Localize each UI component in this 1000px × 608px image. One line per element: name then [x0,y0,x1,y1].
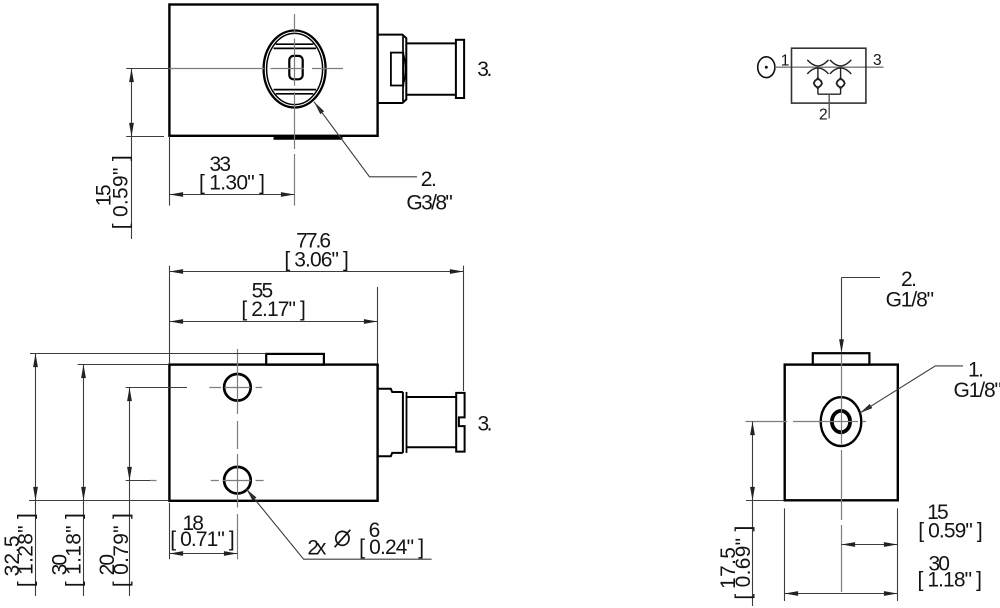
top view vertical centerline [294,14,296,206]
dimension 15 extension line top [126,68,169,70]
svg-text:3.: 3. [477,58,492,81]
fitting nut face lines (front view) [402,392,404,453]
side view horizontal centerline [746,421,867,423]
side view body outline [785,365,898,501]
svg-text:[ 1.30" ]: [ 1.30" ] [199,172,265,195]
svg-text:G1/8": G1/8" [954,379,1000,402]
fitting nut inner detail rect [391,53,403,86]
fitting end flange (top view) [456,40,464,98]
dimension 15 line [131,69,133,240]
dimension 30 line [83,365,85,597]
dimension 17.5 arrows [750,422,755,436]
dimension 33 line [170,194,295,196]
svg-text:[ 1.28" ]: [ 1.28" ] [14,513,37,587]
fitting cylinder (top view) [406,42,456,44]
dimension 77.6 extension left [169,266,171,364]
leader port 2 horizontal line [842,277,881,279]
port 2 lower chord lines [274,89,316,91]
dimension 55 line [170,321,378,323]
dimension 33 arrows [170,192,184,197]
dimension 17.5 extension bottom [746,500,784,502]
svg-text:2: 2 [819,106,828,123]
dimension 77.6 line [170,271,464,273]
side view vertical centerline [841,354,843,592]
port 2 tap line [828,94,830,118]
front view body outline [169,365,377,501]
leader port 1 arrow [858,404,872,415]
svg-text:[ 2.17" ]: [ 2.17" ] [241,298,306,321]
dimension 77.6 arrows [170,269,184,274]
leader 2x holes line [246,489,432,560]
dimension 18 extension left [169,503,171,559]
front view vertical centerline [237,349,239,559]
dimension 18 line [170,553,238,555]
fitting nut face line [402,36,404,101]
front view top boss [266,354,324,365]
left check valve [814,68,823,94]
fitting nut (front view) top profile [378,389,403,392]
dimension 15 line [842,544,898,546]
svg-text:[ 0.24" ]: [ 0.24" ] [359,536,424,559]
dimension 20 arrows [127,388,132,402]
svg-text:[ 3.06" ]: [ 3.06" ] [284,249,349,272]
top view boss edge strip below body [274,137,343,140]
leader port 1 line [860,366,964,413]
dimension 55 extension right [377,287,379,364]
top view body outline [169,5,377,136]
left venturi arcs [807,60,828,74]
right venturi arcs [830,60,851,74]
dimension 55 arrows [170,319,184,324]
svg-text:[ 1.18" ]: [ 1.18" ] [62,513,85,587]
mounting hole upper [224,374,251,401]
upper hole horizontal centerline [209,387,262,389]
dimension 15 extension line bottom [126,136,164,138]
dimension 20 extension top [126,387,187,389]
label diameter symbol [336,531,349,545]
extension line below body right [897,508,899,601]
dimension 15 arrows [842,542,856,547]
leader port 2 arrow [839,339,844,353]
dimension 32.5 extension top [30,353,266,355]
port 2 outer ellipse [264,31,326,108]
svg-text:G3/8": G3/8" [406,191,453,214]
fitting nut (front view) bottom profile [378,453,403,456]
svg-text:2x: 2x [307,536,327,559]
svg-text:2.: 2. [901,268,917,291]
svg-text:3: 3 [873,52,882,69]
fitting nut inner detail arc [403,54,405,84]
dimension 17.5 line [752,422,754,607]
dimension 32.5 arrows [33,354,38,368]
top view horizontal centerline [169,68,343,70]
schematic through line 1 to 3 [775,66,884,68]
leader to port 2 line [314,102,417,177]
svg-text:G1/8": G1/8" [886,289,935,312]
port 1 outer ellipse [821,397,862,446]
leader 2x holes arrow [244,487,256,501]
dimension 30 extension top [78,364,170,366]
svg-text:[ 0.59" ]: [ 0.59" ] [918,519,983,542]
svg-text:[ 0.59" ]: [ 0.59" ] [109,155,132,229]
dimension 30 line (side view) [785,593,898,595]
port 2 upper chord lines [276,43,314,45]
right check valve [836,68,845,94]
dimension 18 arrows [170,551,184,556]
port 2 center slot [289,56,302,79]
side view top boss [813,353,870,364]
dimension 32.5/30 extension bottom [29,500,169,502]
leader to port 2 (top view) arrow [312,100,324,114]
svg-text:3.: 3. [478,412,493,435]
fitting nut (top view) [378,35,407,103]
port 1 inner ring [832,411,850,432]
svg-text:1: 1 [781,52,790,69]
svg-text:2.: 2. [421,168,437,191]
svg-text:[ 0.79" ]: [ 0.79" ] [110,513,133,587]
dimension 32.5 line [35,354,37,597]
svg-text:[ 0.71" ]: [ 0.71" ] [170,528,235,551]
lower hole horizontal centerline [150,480,264,482]
schematic box [792,48,866,103]
leader port 2 vertical line [841,278,843,352]
dimension 15 arrows [129,69,134,83]
dimension 30 arrows (side view) [785,591,799,596]
fitting end flange with groove (front view) [456,393,464,452]
schematic port circle dot [765,66,768,69]
dimension 77.6 extension right [463,266,465,391]
mounting hole lower [224,467,251,494]
svg-text:[ 0.69" ]: [ 0.69" ] [732,526,755,600]
dimension 20 line [129,388,131,597]
schematic port circle with dot [758,57,775,78]
dimension 20 extension bottom [126,480,150,482]
svg-text:[ 1.18" ]: [ 1.18" ] [917,569,982,592]
check valve connector line [818,93,841,95]
dimension 33 extension line left [169,136,171,206]
fitting cylinder (front view) [407,396,457,398]
port 2 inner ellipse [267,33,323,104]
dimension 30 arrows [81,365,86,379]
extension line below body left [784,508,786,601]
